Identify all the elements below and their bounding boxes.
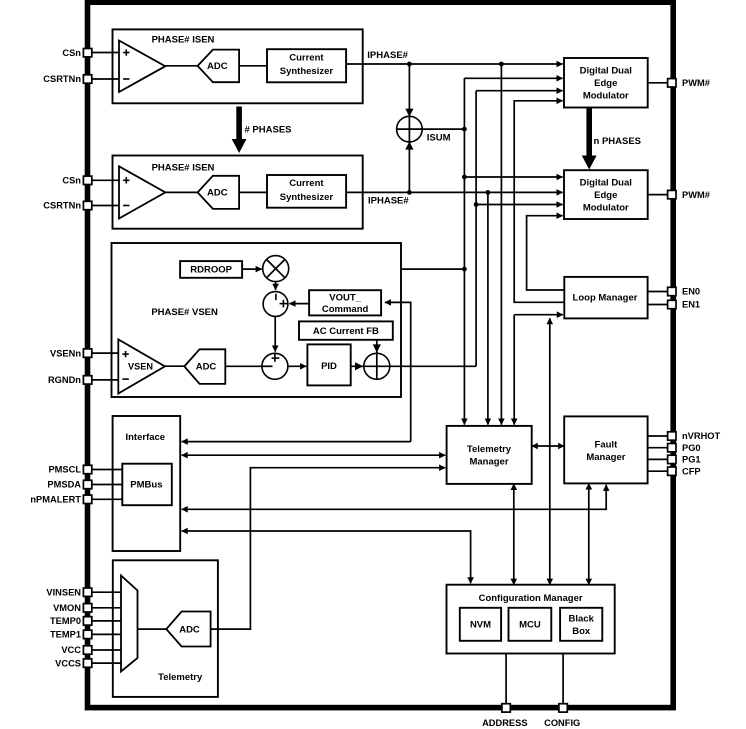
summer 3 circle (364, 353, 390, 379)
block Fault Manager (564, 416, 647, 483)
svg-text:Loop Manager: Loop Manager (573, 293, 638, 304)
wire Loop Manager to Modulator1 input 4 (514, 101, 564, 302)
svg-text:VCCS: VCCS (55, 658, 81, 668)
wire Interface to VOUT_Command (385, 302, 411, 441)
wire IPHASE#2 from Current Synthesizer 2 to Modulator 2 input 2 (346, 191, 562, 193)
wire Interface to Fault Manager (182, 485, 607, 510)
pad nVRHOT (668, 432, 676, 440)
svg-text:PMBus: PMBus (130, 479, 162, 490)
ADC VSEN (184, 349, 225, 384)
pad PWM# 2 (668, 190, 676, 198)
wire Loop Manager to EN1 pad (648, 304, 668, 306)
svg-text:ADDRESS: ADDRESS (482, 718, 527, 728)
wire from Configuration Manager up to Loop Manager input (549, 318, 551, 585)
wire VINSEN to mux (92, 591, 121, 593)
wire telemetry ADC up to Telemetry Manager (211, 468, 446, 629)
wire summer2 to PID (288, 365, 306, 367)
wire multiplier down to summer 1 (275, 282, 277, 290)
junction IPHASE1 drop to Telemetry Manager (499, 62, 504, 67)
block AC Current FB (299, 321, 393, 339)
wire compensator bus to Modulator2 input 3 (476, 204, 562, 206)
wire Fault Manager to PG0 pad (648, 447, 668, 449)
block PHASE# VSEN box (112, 243, 402, 397)
wire ISUM bus vertical to Telemetry Manager (463, 78, 465, 424)
svg-text:PG0: PG0 (682, 443, 701, 453)
svg-text:CSRTNn: CSRTNn (43, 201, 81, 211)
pad VCCS (83, 659, 91, 667)
wire CSn2 to op-amp + (92, 179, 119, 181)
wire Configuration Manager to ADDRESS pad (505, 654, 507, 705)
svg-text:Telemetry: Telemetry (467, 444, 512, 455)
thick arrow n PHASES (582, 108, 597, 170)
svg-text:Telemetry: Telemetry (158, 672, 203, 683)
block Telemetry Manager (447, 426, 532, 484)
wire summer1 down to summer2 (274, 316, 276, 351)
wire op-amp1 out to ADC1 (165, 65, 197, 67)
svg-text:PWM#: PWM# (682, 78, 711, 88)
svg-text:VINSEN: VINSEN (46, 587, 81, 597)
wire Modulator1 output to PWM# pad 1 (648, 82, 668, 84)
pad VCC (83, 646, 91, 654)
wire Interface to Telemetry Manager bidirectional (182, 454, 446, 456)
svg-text:Synthesizer: Synthesizer (280, 192, 334, 203)
wire Fault Manager to PG1 pad (648, 458, 668, 460)
wire VCC to mux (92, 649, 121, 651)
svg-text:IPHASE#: IPHASE# (368, 195, 409, 206)
junction ISUM bus to Modulator2 (462, 175, 467, 180)
svg-text:IPHASE#: IPHASE# (367, 50, 408, 61)
svg-text:EN0: EN0 (682, 287, 700, 297)
svg-text:nPMALERT: nPMALERT (30, 495, 81, 505)
svg-text:CSn: CSn (62, 48, 81, 58)
svg-text:RGNDn: RGNDn (48, 375, 81, 385)
svg-text:# PHASES: # PHASES (245, 125, 292, 136)
svg-text:VSEN: VSEN (128, 362, 153, 372)
mux multiplexer (121, 576, 138, 672)
pad CSRTNn 1 (83, 75, 91, 83)
wire TEMP0 to mux (92, 620, 121, 622)
op-amp ISEN2 amplifier (119, 166, 165, 218)
pad PG1 (668, 455, 676, 463)
svg-text:Configuration Manager: Configuration Manager (479, 593, 583, 604)
block Digital Dual Edge Modulator 2 (564, 170, 648, 219)
pad CSRTNn 2 (83, 201, 91, 209)
pad EN0 (668, 287, 676, 295)
pad VMON (83, 604, 91, 612)
svg-text:Digital Dual: Digital Dual (580, 66, 632, 77)
svg-text:n PHASES: n PHASES (594, 136, 642, 147)
svg-text:RDROOP: RDROOP (190, 265, 232, 276)
svg-text:PID: PID (321, 361, 337, 372)
pad PMSCL (83, 465, 91, 473)
wire Configuration Manager to CONFIG pad (562, 654, 564, 705)
svg-text:Manager: Manager (586, 452, 625, 463)
wire ISUM bus to RDROOP multiplier (290, 268, 464, 270)
junction compensator bus to Modulator2 (474, 202, 479, 207)
svg-text:VSENn: VSENn (50, 348, 81, 358)
junction IPHASE1-ISUM (407, 62, 412, 67)
block Current Synthesizer 2 (267, 175, 346, 208)
block VOUT_ Command (309, 290, 381, 315)
pad EN1 (668, 300, 676, 308)
svg-text:PWM#: PWM# (682, 190, 711, 200)
pad VSENn (83, 349, 91, 357)
thick arrow # PHASES (232, 107, 247, 154)
wire Fault Manager to nVRHOT pad (648, 435, 668, 437)
block RDROOP (180, 261, 242, 278)
wire Loop Manager input drop to Telemetry Manager (513, 315, 515, 425)
pad ADDRESS (502, 704, 510, 712)
svg-text:Modulator: Modulator (583, 91, 629, 102)
wire VOUT_Command to summer 1 (289, 303, 309, 305)
svg-text:CSn: CSn (62, 176, 81, 186)
svg-text:PHASE# ISEN: PHASE# ISEN (152, 162, 215, 173)
block Telemetry box (113, 560, 218, 697)
wire VSEN amp out to VSEN ADC (165, 365, 184, 367)
wire CSn1 to op-amp + (92, 52, 119, 54)
svg-text:Current: Current (289, 178, 324, 189)
block PID (307, 344, 350, 385)
wire Loop Manager to Modulator2 input 4 (527, 216, 565, 290)
svg-text:AC Current FB: AC Current FB (313, 326, 379, 337)
wire mux to telemetry ADC (138, 628, 167, 630)
pad PWM# 1 (668, 79, 676, 87)
block Black Box (560, 608, 602, 641)
svg-text:Box: Box (572, 626, 591, 637)
chip outer border (88, 2, 674, 707)
wire IPHASE2 bus down to Telemetry Manager (487, 192, 489, 424)
summer 2 circle (262, 353, 288, 379)
summer ISUM circle (397, 128, 465, 130)
svg-text:Command: Command (322, 304, 369, 315)
svg-text:TEMP1: TEMP1 (50, 630, 81, 640)
wire VCCS to mux (92, 662, 121, 664)
wire PMSCL to PMBus (92, 469, 123, 471)
svg-text:Modulator: Modulator (583, 203, 629, 214)
multiplier circle (263, 256, 289, 282)
pad TEMP0 (83, 617, 91, 625)
op-amp ISEN1 amplifier (119, 41, 165, 93)
wire Interface to Configuration Manager (182, 531, 471, 583)
wire VSENn to VSEN amp + (92, 352, 119, 354)
junction ISUM bus to multiplier (462, 267, 467, 272)
svg-text:PHASE# ISEN: PHASE# ISEN (152, 34, 215, 45)
svg-text:EN1: EN1 (682, 300, 700, 310)
wire Telemetry Manager to Configuration Manager bidirectional (513, 484, 515, 585)
svg-text:VOUT_: VOUT_ (329, 292, 361, 303)
wire Fault Manager to CFP pad (648, 470, 668, 472)
pad VINSEN (83, 588, 91, 596)
block NVM (460, 608, 501, 641)
wire RGNDn to VSEN amp - (92, 379, 119, 381)
svg-text:Edge: Edge (594, 78, 617, 89)
svg-text:TEMP0: TEMP0 (50, 616, 81, 626)
wire Modulator2 output to PWM# pad 2 (648, 194, 668, 196)
wire VMON to mux (92, 607, 121, 609)
summer 1 circle (263, 292, 288, 317)
svg-text:Manager: Manager (469, 457, 508, 468)
svg-text:Synthesizer: Synthesizer (280, 66, 334, 77)
svg-text:VMON: VMON (53, 603, 81, 613)
wire IPHASE1 bus down to Telemetry Manager (500, 64, 502, 425)
wire Fault Manager to Configuration Manager bidirectional (588, 483, 590, 584)
pad TEMP1 (83, 630, 91, 638)
wire RDROOP to multiplier (242, 268, 262, 270)
svg-text:Edge: Edge (594, 190, 617, 201)
pad nPMALERT (83, 495, 91, 503)
svg-text:CONFIG: CONFIG (544, 718, 580, 728)
junction ISUM bus (462, 127, 467, 132)
pad CSn 1 (83, 49, 91, 57)
svg-text:PHASE# VSEN: PHASE# VSEN (151, 307, 218, 318)
svg-text:MCU: MCU (519, 620, 541, 631)
pad CFP (668, 467, 676, 475)
junction IPHASE2 drop to Telemetry Manager (486, 190, 491, 195)
svg-text:PMSDA: PMSDA (47, 480, 81, 490)
svg-text:ADC: ADC (207, 188, 228, 199)
svg-text:Digital Dual: Digital Dual (580, 178, 632, 189)
svg-text:ADC: ADC (179, 624, 200, 635)
svg-text:Fault: Fault (595, 440, 619, 451)
svg-text:nVRHOT: nVRHOT (682, 431, 721, 441)
wire op-amp2 out to ADC2 (165, 191, 197, 193)
wire CSRTNn2 to op-amp - (92, 205, 119, 207)
ADC ISEN2 (198, 176, 240, 209)
wire ISUM bus to Modulator1 input 2 (464, 77, 562, 79)
svg-text:ADC: ADC (196, 362, 217, 373)
wire ADC2 to Current Synthesizer 2 (239, 191, 267, 193)
pad CONFIG (559, 704, 567, 712)
wire into Interface from VOUT link (182, 441, 411, 443)
pad PMSDA (83, 480, 91, 488)
pad CSn 2 (83, 176, 91, 184)
block Loop Manager (564, 277, 647, 319)
block Configuration Manager (447, 585, 615, 654)
block Interface box (113, 416, 181, 551)
wire ISUM bus to Modulator2 input 1 (464, 176, 562, 178)
wire AC Current FB down to summer 3 (376, 340, 378, 380)
wire CSRTNn1 to op-amp - (92, 78, 119, 80)
wire PMSDA to PMBus (92, 484, 123, 486)
wire compensator bus to Modulator1 input 3 (476, 90, 562, 92)
wire compensator bus vertical (475, 91, 477, 367)
wire Loop Manager to EN0 pad (648, 291, 668, 293)
svg-text:CFP: CFP (682, 466, 701, 476)
block Current Synthesizer 1 (267, 49, 346, 82)
junction IPHASE2-ISUM (407, 190, 412, 195)
svg-text:Current: Current (289, 52, 324, 63)
wire Telemetry Manager to Fault Manager bidirectional (532, 445, 565, 447)
wire PID through summer 3 to bus (351, 365, 476, 367)
pad RGNDn (83, 376, 91, 384)
block Digital Dual Edge Modulator 1 (564, 58, 648, 108)
block PMBus (122, 464, 172, 506)
wire IPHASE#1 from Current Synthesizer 1 to Modulator 1 input 1 (346, 63, 562, 65)
wire into Loop Manager input (514, 314, 563, 316)
pad PG0 (668, 444, 676, 452)
svg-text:ISUM: ISUM (427, 132, 451, 143)
svg-text:VCC: VCC (61, 645, 81, 655)
wire IPHASE1 down through ISUM summer to IPHASE2 (408, 64, 410, 192)
wire VSEN ADC to summer 2 (225, 365, 262, 367)
svg-text:PMSCL: PMSCL (48, 465, 81, 475)
block PHASE# ISEN 2 box (113, 156, 363, 229)
block MCU (509, 608, 552, 641)
svg-text:Interface: Interface (125, 432, 165, 443)
op-amp VSEN amplifier (118, 339, 165, 393)
svg-text:Black: Black (569, 613, 595, 624)
wire TEMP1 to mux (92, 633, 121, 635)
svg-text:NVM: NVM (470, 620, 491, 631)
wire nPMALERT to PMBus (92, 498, 123, 500)
ADC ISEN1 (198, 50, 240, 83)
ADC telemetry (166, 612, 210, 647)
svg-text:PG1: PG1 (682, 455, 701, 465)
svg-text:CSRTNn: CSRTNn (43, 74, 81, 84)
svg-text:ADC: ADC (207, 61, 228, 72)
wire ADC1 to Current Synthesizer 1 (239, 65, 267, 67)
block PHASE# ISEN 1 box (113, 29, 363, 103)
